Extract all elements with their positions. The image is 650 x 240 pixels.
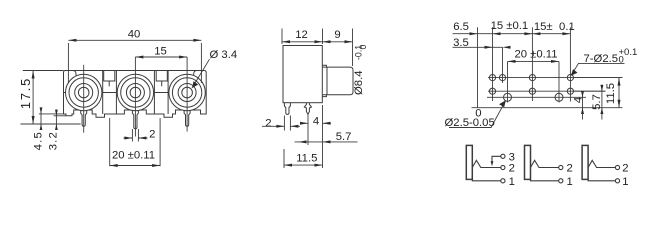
arrow dim20 left (front) — [110, 164, 118, 167]
svg-text:5.7: 5.7 — [336, 131, 352, 143]
peg L center line — [507, 62, 509, 103]
barrel — [322, 67, 353, 95]
row A right ext — [574, 77, 623, 79]
arrow dim9 left — [323, 40, 331, 43]
arrow dim4.5 bottom — [40, 124, 43, 130]
jack symbol 3 terminal 2 — [615, 165, 619, 169]
svg-text:Ø2.5-0.05: Ø2.5-0.05 — [445, 117, 495, 129]
hole A3 — [529, 75, 535, 81]
leader 7-dia2.5 underline — [571, 63, 624, 75]
jack 2 ring 2 — [121, 78, 150, 107]
svg-text:3.5: 3.5 — [453, 37, 469, 49]
arrow dim12 left — [282, 40, 290, 43]
svg-text:9: 9 — [334, 29, 340, 41]
dim 15 line — [135, 56, 187, 58]
row B right ext — [574, 90, 606, 92]
row peg line — [487, 96, 586, 98]
jack symbol 2 tip contact — [531, 160, 559, 167]
col 3 line — [531, 27, 533, 101]
arrow dim4 top (pcb) — [581, 91, 584, 97]
dim 17.5 top ext line — [23, 70, 64, 72]
row A line — [488, 77, 623, 79]
arrow dim3.2 top — [55, 110, 58, 116]
collar C3 left edge — [167, 71, 169, 115]
hole B4 — [567, 88, 573, 94]
svg-text:4.5: 4.5 — [33, 131, 45, 150]
svg-text:15±: 15± — [534, 21, 553, 33]
jack 3 ring 3 — [178, 84, 196, 102]
arrow dim2 right (front) — [138, 137, 146, 140]
dim 11.5 line (side) — [284, 164, 323, 166]
jack 2 outer circle — [117, 74, 153, 110]
arrow dim17.5 bottom — [32, 116, 35, 124]
arrow dim5.7 bottom (pcb) — [600, 108, 603, 114]
arrow dim5.7 top (pcb) — [600, 85, 603, 91]
arrow dim5.7 b (side) — [323, 140, 331, 143]
dim 11.5 line (pcb) — [618, 78, 620, 108]
arrow dim15#1 right (pcb) — [524, 32, 532, 35]
arrow dim17.5 top — [32, 71, 35, 79]
peg center line — [307, 115, 309, 146]
arrow dim12 right — [315, 40, 323, 43]
dim 11.5 left ext line — [283, 149, 285, 168]
arrow dim6.5 (pcb) — [470, 32, 478, 35]
col 1 line — [492, 27, 494, 101]
arrow dim9 right — [345, 40, 353, 43]
pcb base line y0 — [472, 107, 623, 109]
svg-text:0: 0 — [619, 55, 624, 66]
arrow dim15 right — [179, 56, 187, 59]
row B line — [488, 90, 606, 92]
right reference ext line — [322, 105, 324, 168]
key tab 1 — [104, 71, 115, 82]
jack symbol 2 sleeve — [525, 145, 531, 179]
dim 4 line (side) — [301, 122, 332, 124]
left ear inner edge — [73, 71, 76, 111]
dim 2 arrow tails — [124, 137, 148, 139]
arrow dim11.5 right (side) — [315, 164, 323, 167]
dim 3.5 line — [453, 46, 503, 48]
svg-text:4: 4 — [313, 116, 319, 128]
leader dia2.5-0.05 underline — [449, 102, 505, 128]
svg-text:20 ±0.11: 20 ±0.11 — [514, 49, 557, 61]
hole B3 — [529, 88, 535, 94]
jack symbol 3 ground wire — [588, 179, 615, 180]
collar C2 right edge — [153, 71, 155, 115]
peg hole L — [504, 93, 512, 101]
arrow dim20 right (front) — [152, 164, 160, 167]
jack symbol 2 ground wire — [531, 179, 559, 180]
svg-text:2: 2 — [622, 163, 628, 175]
jack symbol 1 terminal 1 — [501, 179, 505, 183]
svg-text:2: 2 — [149, 129, 155, 141]
svg-text:15: 15 — [154, 46, 167, 58]
front body outline J-left — [64, 71, 207, 118]
arrow dim4 left (side) — [300, 122, 308, 125]
jack symbol 2 terminal 1 — [559, 179, 563, 183]
jack symbol 3 terminal 1 — [615, 179, 619, 183]
svg-text:Ø8.4: Ø8.4 — [353, 71, 365, 96]
svg-text:3: 3 — [509, 151, 515, 163]
arrow dim11.5 top (pcb) — [618, 78, 621, 86]
jack symbol 1 terminal 2 — [501, 165, 505, 169]
svg-text:0: 0 — [358, 45, 368, 50]
svg-text:0.1: 0.1 — [559, 21, 575, 33]
dim 12/9 ext lines — [282, 29, 353, 67]
svg-text:5.7: 5.7 — [591, 94, 603, 110]
svg-text:11.5: 11.5 — [605, 83, 617, 104]
jack 1 outer circle — [66, 74, 102, 110]
dim 20 line (pcb) — [508, 60, 560, 62]
dim 40 line — [68, 39, 201, 41]
dim 40 extension lines — [68, 43, 201, 83]
dim 2 arrow tails (side) — [262, 125, 300, 127]
jack symbol 1 switch arm to terminal 3 — [492, 156, 501, 162]
dim 20 ext lines — [110, 118, 160, 166]
hole B1 — [489, 88, 495, 94]
key tab 2 — [156, 71, 167, 82]
arrow dim11.5 bottom (pcb) — [618, 100, 621, 108]
dim 17.5 line — [32, 71, 34, 125]
dim 3.2 ext line — [54, 115, 66, 117]
bottom baseline ext line — [21, 123, 81, 125]
dim 3.2 line — [55, 110, 57, 131]
jack 2 center hole — [130, 87, 141, 98]
svg-text:0: 0 — [475, 108, 481, 120]
svg-text:2: 2 — [265, 118, 271, 130]
collar C1 right edge — [102, 71, 104, 115]
svg-text:1: 1 — [622, 176, 628, 188]
jack 1 ring 2 — [69, 78, 98, 107]
svg-text:17.5: 17.5 — [18, 77, 33, 109]
arrow leader dia2.5-0.05 — [499, 100, 506, 107]
side body rectangle — [283, 46, 322, 103]
hole A4 — [567, 75, 573, 81]
svg-text:15 ±0.1: 15 ±0.1 — [491, 20, 529, 32]
pin under jack 2 — [132, 110, 138, 129]
arrow dim20 left (pcb) — [508, 60, 516, 63]
dim 4 line (pcb) — [582, 92, 584, 120]
col 4 line — [569, 27, 571, 101]
arrow dim15 left — [135, 56, 143, 59]
arrow dim15#2 right (pcb) — [562, 32, 570, 35]
arrow dim2 left (front) — [124, 137, 132, 140]
jack symbol 3 tip contact — [588, 160, 615, 167]
jack symbol 1 sleeve — [466, 145, 472, 179]
body seam line at circle height — [64, 92, 207, 94]
hole A2 — [499, 75, 505, 81]
arrow dim11.5 left (side) — [284, 164, 292, 167]
jack symbol 1 ground wire — [472, 179, 501, 180]
arrow dim3.5 right (pcb) — [503, 46, 511, 49]
dim 12 line — [282, 41, 323, 43]
pin under jack 1 — [81, 110, 87, 126]
svg-text:1: 1 — [567, 176, 573, 188]
jack 1 center hole — [78, 87, 89, 98]
key tab 1 stub — [108, 81, 110, 86]
barrel step — [322, 65, 326, 67]
pcb left edge line — [477, 27, 479, 107]
arrow dim40 right — [193, 39, 201, 42]
jack symbol 1 terminal 3 — [501, 154, 505, 158]
right ear inner edge — [194, 71, 197, 111]
svg-text:4: 4 — [573, 97, 585, 103]
leader line dia 3.4 — [192, 59, 210, 88]
svg-text:1: 1 — [509, 176, 515, 188]
svg-text:2: 2 — [567, 163, 573, 175]
side pin (signal) — [284, 103, 290, 115]
svg-text:20 ±0.11: 20 ±0.11 — [112, 150, 155, 162]
svg-text:6.5: 6.5 — [453, 21, 469, 33]
arrow dim4 right (side) — [323, 122, 331, 125]
svg-text:40: 40 — [128, 29, 141, 41]
center line jack 3 — [186, 57, 188, 132]
dim 2 ext lines (side pin) — [284, 116, 290, 131]
arrow dim4 bottom (pcb) — [581, 108, 584, 114]
center line jack 1 — [83, 65, 85, 133]
arrow dim3.5 left (pcb) — [485, 46, 493, 49]
col 2 line — [502, 47, 504, 83]
svg-text:11.5: 11.5 — [296, 153, 317, 165]
side peg with barbs — [304, 103, 311, 115]
jack 3 center hole — [182, 87, 193, 98]
center line jack 2 — [134, 57, 136, 137]
arrow dim2 right (side) — [290, 125, 298, 128]
jack symbol 2 terminal 2 — [559, 165, 563, 169]
arrow leader dia3.4 — [192, 81, 198, 88]
arrow switch terminal 3 — [491, 161, 494, 166]
dim 4.5 ext line — [39, 113, 64, 115]
dim 5.7 line (side) — [295, 141, 358, 143]
jack symbol 1 tip contact — [472, 160, 501, 167]
dim 2 ext lines (pin 2) — [132, 129, 138, 142]
jack symbol 3 sleeve — [582, 145, 588, 179]
hole A1 — [489, 75, 495, 81]
top dim chain line — [453, 33, 571, 35]
peg R center line — [558, 62, 560, 103]
dim 20 line — [110, 165, 160, 167]
collar C2 left edge — [115, 71, 117, 115]
key tab 2 stub — [161, 81, 163, 86]
dim 9 line — [323, 41, 353, 43]
svg-text:Ø 3.4: Ø 3.4 — [210, 49, 238, 61]
svg-text:12: 12 — [295, 29, 308, 41]
barrel flange line — [326, 67, 328, 95]
arrow dim5.7 a (side) — [299, 140, 307, 143]
arrow dim20 right (pcb) — [551, 60, 559, 63]
arrow dim2 left (side) — [276, 125, 284, 128]
arrow dim40 left — [68, 39, 76, 42]
dim 4.5 line — [40, 108, 42, 131]
svg-text:2: 2 — [509, 163, 515, 175]
svg-text:7-Ø2.5: 7-Ø2.5 — [584, 53, 619, 65]
svg-text:3.2: 3.2 — [47, 131, 59, 150]
pin under jack 3 — [184, 110, 190, 126]
barrel bottom step — [322, 95, 326, 97]
arrow leader 7-dia2.5 — [571, 69, 578, 76]
jack 3 outer circle — [169, 74, 205, 110]
arrow dim15#1 left (pcb) — [493, 32, 501, 35]
jack 3 ring 2 — [172, 78, 201, 107]
jack 2 ring 3 — [126, 84, 144, 102]
dim 5.7 line (pcb) — [601, 85, 603, 120]
peg hole R — [555, 93, 563, 101]
arrow dim15#2 left (pcb) — [532, 32, 540, 35]
jack 1 ring 3 — [75, 84, 93, 102]
arrow dim4.5 top — [40, 107, 43, 114]
arrow dim3.2 bottom — [55, 124, 58, 130]
